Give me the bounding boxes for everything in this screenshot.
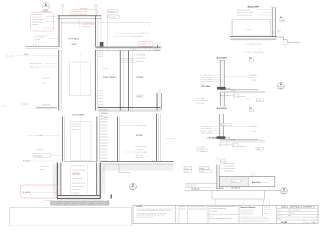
red dashed verticals: [70, 164, 72, 194]
white tag in hatch: [232, 180, 241, 183]
ground line long: [185, 190, 280, 192]
slab edge dark: [217, 136, 226, 139]
hatch around pit: [53, 164, 57, 197]
boxed note below cloud: [24, 35, 59, 55]
svg-text:Davis & Oborne: Davis & Oborne: [241, 206, 257, 209]
svg-text:BALCONY: BALCONY: [252, 181, 262, 184]
svg-text:1:20, 1:5 @ A1: 1:20, 1:5 @ A1: [288, 209, 300, 211]
red leader + text inside overrun: [79, 19, 94, 28]
svg-text:do not scale off drawings. use: do not scale off drawings. use figured d…: [137, 208, 174, 210]
small dark tick right of earth band: [110, 195, 112, 199]
ground line in shaft: [65, 161, 97, 163]
store walls: [117, 117, 119, 162]
title block outer: [133, 205, 318, 223]
dividers: [175, 205, 177, 223]
level 2 floor slab right segment: [98, 107, 161, 109]
overrun roof slab: [58, 15, 102, 17]
svg-text:rev: rev: [306, 222, 308, 224]
wall upper: [219, 61, 221, 88]
shaft right wall: [96, 117, 98, 162]
dims below slab: [220, 143, 222, 147]
svg-text:A-106: A-106: [130, 188, 135, 191]
upper flight treads: [98, 51, 103, 56]
svg-text:A-106: A-106: [43, 9, 48, 12]
red cloud above overrun: [71, 7, 98, 15]
mid flight treads: [98, 90, 103, 107]
svg-text:FIRE STAIRS: FIRE STAIRS: [103, 76, 116, 79]
floor lines: [220, 138, 259, 140]
lintel at wall base: [100, 42, 104, 47]
door head lines stair wall: [120, 57, 133, 59]
level 1 floor slab left segment: [26, 46, 60, 48]
balcony slab: [230, 35, 277, 37]
svg-text:RL 98.40: RL 98.40: [23, 159, 30, 162]
slab edge dark: [217, 87, 226, 90]
callout 2: [130, 183, 137, 191]
svg-text:LTR. WDW: LTR. WDW: [201, 85, 210, 88]
svg-text:26 Wyndham St: 26 Wyndham St: [241, 212, 254, 214]
svg-text:job no: job no: [263, 211, 268, 213]
svg-text:this drawing is copyright and: this drawing is copyright and remains th…: [137, 213, 167, 215]
lift well left wall: [58, 16, 60, 47]
svg-text:A-110: A-110: [280, 20, 284, 22]
callout 4: [278, 83, 285, 91]
room box: [233, 20, 271, 36]
svg-text:issued for construction: issued for construction: [189, 209, 207, 211]
shaft left wall: [61, 117, 63, 162]
ground slab right of pit: [101, 160, 174, 162]
boxed tag on wall: [220, 124, 231, 126]
boxed labels left pair: [184, 166, 192, 169]
ground lines left: [185, 183, 217, 185]
second storey walls: [58, 50, 60, 111]
svg-text:02.06.04: 02.06.04: [180, 209, 186, 211]
svg-text:2,600: 2,600: [72, 43, 77, 46]
wall: [271, 8, 273, 37]
svg-text:4: 4: [280, 83, 282, 87]
svg-text:dwg no: dwg no: [278, 218, 282, 220]
pit right wall: [96, 163, 98, 196]
wall upper: [219, 114, 221, 139]
svg-text:RL 96.300: RL 96.300: [22, 191, 30, 194]
svg-text:A-106: A-106: [281, 192, 286, 195]
level 1 floor slab right segment: [96, 46, 161, 48]
grid line thru right wall: [95, 8, 97, 50]
svg-text:Shepparton 3630: Shepparton 3630: [241, 214, 254, 216]
svg-text:BALCONY: BALCONY: [248, 5, 260, 8]
svg-text:scale: scale: [278, 209, 281, 211]
wall stub: [216, 165, 218, 189]
svg-text:A-110: A-110: [200, 171, 204, 173]
wall lower: [219, 93, 221, 107]
svg-text:2,600: 2,600: [24, 53, 29, 56]
svg-text:6: 6: [45, 3, 47, 7]
svg-text:RL 98.425: RL 98.425: [34, 154, 42, 157]
planter slab band: [219, 177, 275, 187]
left notes box: [10, 208, 132, 226]
svg-text:BALCONY: BALCONY: [217, 57, 228, 60]
step right of wall: [276, 37, 301, 42]
leader texts above slab right: [115, 32, 154, 51]
red oval level tag: [107, 15, 119, 19]
dark earth band under pit: [51, 201, 110, 205]
dim ticks: [273, 31, 275, 34]
svg-text:STORE: STORE: [136, 76, 144, 79]
red annotation cloud top-left: [30, 12, 56, 31]
svg-text:pty ltd ACN 004 323: pty ltd ACN 004 323: [241, 210, 255, 212]
svg-text:A-106: A-106: [155, 49, 160, 52]
boxed labels: [199, 167, 209, 170]
svg-text:JUNE 2004: JUNE 2004: [288, 212, 295, 214]
small tick below: [216, 157, 218, 159]
svg-text:FFL 99.275: FFL 99.275: [231, 186, 240, 189]
svg-text:B1: B1: [249, 107, 251, 110]
step: [226, 88, 235, 91]
dims below slab: [220, 93, 222, 97]
svg-text:ex. slab: ex. slab: [264, 182, 269, 184]
small circle callout: [220, 159, 225, 164]
svg-text:A-124: A-124: [281, 221, 288, 224]
callout 6: [42, 3, 51, 12]
pit bottom slab: [57, 195, 100, 197]
svg-text:2,700: 2,700: [2, 105, 6, 107]
svg-text:A-106: A-106: [278, 87, 283, 90]
store right wall stub upper: [156, 93, 158, 110]
svg-text:ex. room: ex. room: [246, 29, 253, 31]
stair treads: [99, 110, 107, 161]
svg-text:date: date: [278, 212, 281, 214]
svg-text:reg no 5123: reg no 5123: [264, 209, 271, 211]
grid bubble left: [61, 4, 64, 7]
callout 1: [149, 42, 162, 52]
grid line + label box at x107.5: [107, 10, 109, 50]
overrun ceiling: [61, 21, 95, 23]
level 2 floor slab left segment: [36, 106, 57, 108]
grid bubble above stub: [158, 90, 160, 92]
stair center dash: [114, 117, 116, 160]
svg-text:041234: 041234: [264, 213, 268, 215]
parapet line right of overrun: [98, 22, 150, 24]
svg-text:BALCONY: BALCONY: [217, 107, 228, 110]
lift car outline: [71, 122, 92, 161]
svg-text:drawn: drawn: [278, 215, 282, 217]
svg-text:LIFT WELL: LIFT WELL: [69, 38, 81, 41]
svg-text:property of the architect and: property of the architect and may not be: [137, 215, 165, 217]
lift well right wall: [95, 16, 97, 47]
svg-text:LIFT SHAFT: LIFT SHAFT: [72, 113, 85, 116]
leader lines to title block: [215, 199, 217, 205]
red level box: [20, 185, 58, 198]
svg-text:reproduced without written per: reproduced without written permission: [137, 217, 154, 219]
svg-text:LTR. WDW: LTR. WDW: [208, 137, 217, 140]
svg-text:B1: B1: [280, 16, 282, 19]
floor lines: [220, 89, 258, 91]
svg-text:amended as marked: amended as marked: [189, 206, 206, 208]
pit left wall: [56, 163, 58, 199]
grid bubble right: [95, 4, 98, 7]
svg-text:be reproduced without permissi: be reproduced without permission: [241, 221, 266, 223]
svg-text:A-110: A-110: [185, 171, 189, 173]
callout 3: [281, 188, 288, 196]
lift car outline upper: [69, 62, 91, 96]
step: [225, 138, 234, 141]
svg-text:3: 3: [283, 188, 285, 192]
svg-text:2: 2: [132, 183, 134, 187]
svg-text:architects: architects: [264, 206, 270, 208]
svg-text:P:\2004\041234 rental units mo: P:\2004\041234 rental units mooroopna\A-…: [45, 200, 110, 202]
svg-text:15.06.04: 15.06.04: [180, 206, 186, 208]
svg-text:only. verify all dimensions on: only. verify all dimensions on site prio…: [137, 210, 171, 212]
svg-text:1: 1: [157, 44, 159, 48]
svg-text:RL 99.125: RL 99.125: [216, 187, 224, 190]
svg-text:STORE: STORE: [136, 134, 144, 137]
footing outline: [212, 191, 265, 200]
